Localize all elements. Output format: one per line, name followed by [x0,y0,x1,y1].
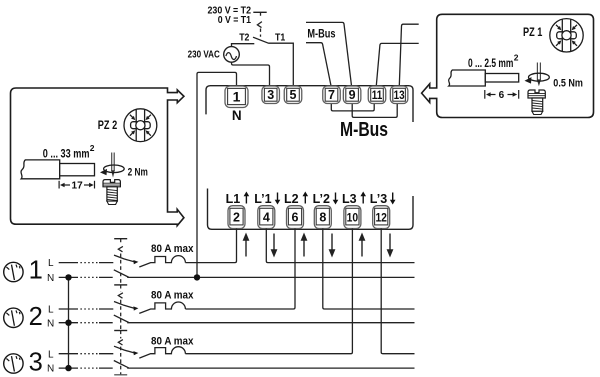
meter 1 breaker element [139,256,185,267]
junction dot N meter 2 [65,320,71,326]
svg-text:L’3: L’3 [370,192,387,206]
label L'3 down [370,192,396,206]
M-Bus link terminal 7 to 11 under strip [331,104,374,111]
svg-text:3: 3 [29,349,43,377]
svg-text:17: 17 [72,180,84,191]
meter 2 switch L blade [114,302,134,309]
switch link chevron meter 1 [118,246,123,251]
label L3 up [342,192,366,206]
wire T1 common to terminal 5 [268,43,293,86]
M-Bus wire upper to terminal 9 [306,22,352,85]
label L'2 down [313,192,339,206]
svg-text:N: N [232,108,242,123]
PZ1 torque rotation ellipse arrow [525,73,550,83]
meter 2 N wire left [59,322,113,324]
PZ2 pozidriv bit icon [124,109,157,142]
meter 1 switch L blade [114,255,134,262]
meter 1 N wire dotted [77,276,100,278]
meter body top terminal strip outline [206,86,413,122]
svg-text:5: 5 [290,88,297,102]
wire riser terminal 4 return L'1 [266,229,414,263]
tariff switch T2 fixed contact wire [232,44,255,47]
wire riser terminal 12 return L'3 [381,229,414,354]
switch link bar meter 2-3 [114,330,127,332]
svg-text:L2: L2 [284,192,299,206]
svg-text:0 ... 2.5 mm: 0 ... 2.5 mm [468,58,513,70]
terminal 7 [323,86,341,104]
tariff control link top bar [253,11,266,13]
meter 2 switch L contact arrow [133,306,138,310]
svg-text:12: 12 [375,210,387,224]
tariff control link arrow chevron [257,22,262,28]
meter 3 breaker element [139,347,185,358]
svg-text:L3: L3 [342,192,357,206]
meter 3 symbol circle [4,354,23,373]
switch link dashed line meter 3 [120,331,122,375]
M-Bus wire terminal 11 to right [376,43,418,85]
svg-text:PZ 2: PZ 2 [98,120,117,132]
meter 1 switch N blade [114,270,129,277]
M-Bus wire lower to terminal 7 [306,43,331,86]
switch link bottom bar meter 3 [114,374,127,376]
junction dot N meter 1 [65,274,71,280]
PZ2 cable stripped conductor [60,164,95,176]
svg-text:M-Bus: M-Bus [340,119,388,141]
PZ2 torque rotation ellipse arrow [100,165,124,175]
svg-text:80 A max: 80 A max [151,335,194,347]
svg-text:3: 3 [267,88,274,102]
meter 2 symbol circle [4,308,23,327]
PZ2 screwdriver shaft and tip [111,153,115,178]
PZ1 terminal screw [528,90,545,115]
PZ1 cable stripped conductor [485,74,518,83]
svg-text:6: 6 [499,90,505,101]
junction dot N riser [194,274,200,280]
M-Bus wire terminal 13 to right [399,24,418,85]
terminal 5 [284,86,302,104]
direction arrow up below terminal 2 [243,233,250,257]
svg-text:0 V = T1: 0 V = T1 [218,15,252,26]
meter 1 N wire left [59,276,113,278]
PZ1 pozidriv bit icon [550,19,583,52]
meter 2 breaker element [139,302,185,313]
meter 1 switch L contact arrow [133,260,138,264]
svg-text:9: 9 [349,88,356,102]
tariff control dashed link [260,12,262,37]
direction arrow up below terminal 10 [359,233,366,257]
svg-text:7: 7 [328,88,335,102]
PZ1 cable insulation with break [449,70,486,86]
AC source sine wave [226,53,237,60]
PZ1 detail box with pointer arrow [422,14,594,117]
junction dot N meter 3 [65,365,71,371]
meter 3 N wire dotted [77,367,100,369]
svg-text:13: 13 [394,88,405,102]
meter 3 L wire dotted [77,353,100,355]
label L'1 down [254,192,280,206]
meter 3 switch L contact arrow [133,351,138,355]
meter 1 N wire right to junction and loads [127,276,414,278]
PZ2 strip length dimension 17 [59,180,94,191]
meter 3 switch N blade [114,361,129,368]
label 0 ... 33 mm2 [43,143,95,161]
terminal 1 [225,86,248,108]
direction arrow down below terminal 4 [271,234,278,258]
svg-text:M-Bus: M-Bus [307,26,335,40]
svg-text:L1: L1 [226,192,241,206]
wire riser terminal 2 feed [185,229,236,263]
svg-text:PZ 1: PZ 1 [523,27,543,39]
PZ2 terminal screw [103,180,120,205]
meter 3 switch L blade [114,346,134,353]
meter 2 N wire dotted [77,322,100,324]
meter 1 L wire dotted [77,262,100,264]
svg-text:2 Nm: 2 Nm [128,167,148,179]
meter 1 symbol circle [4,262,23,281]
meter 2 L wire left [59,308,114,310]
tariff switch blade [253,37,268,43]
svg-text:4: 4 [263,210,270,224]
wire terminal 1 N up-left-down to junction [197,72,237,277]
terminal 6 [287,206,304,229]
switch link dashed line meter 2 [120,285,122,331]
svg-text:11: 11 [372,88,383,102]
svg-text:80 A max: 80 A max [151,290,194,302]
PZ1 strip length dimension 6 [485,90,519,101]
meter body bottom terminal strip outline [208,189,414,230]
svg-text:6: 6 [292,210,299,224]
svg-text:L’2: L’2 [313,192,330,206]
svg-text:T1: T1 [275,31,285,43]
terminal 10 [344,206,361,229]
terminal 12 [373,206,390,229]
svg-text:L: L [48,349,54,360]
direction arrow down below terminal 12 [387,234,394,258]
meter 2 L wire dotted [77,308,100,310]
svg-text:N: N [47,273,54,284]
meter 1 L wire left [59,262,114,264]
terminal 9 [343,86,361,104]
meter 3 N wire right to loads [127,367,414,369]
N bus vertical wire [68,277,70,368]
svg-text:2: 2 [233,210,240,224]
PZ2 detail box with pointer arrows [11,88,184,226]
svg-text:L: L [48,305,54,316]
PZ2 cable insulation with break [21,160,60,179]
PZ1 screwdriver shaft and tip [537,63,541,87]
svg-text:80 A max: 80 A max [151,243,194,255]
direction arrow down below terminal 8 [329,234,336,258]
wire riser terminal 8 return L'2 [323,229,415,310]
svg-text:L’1: L’1 [254,192,271,206]
meter 2 switch N blade [114,315,129,322]
terminal 3 [262,86,280,104]
terminal 11 [368,86,386,104]
direction arrow up below terminal 6 [301,233,308,257]
meter 3 N wire left [59,367,113,369]
svg-text:T2: T2 [239,31,249,43]
wire riser terminal 6 feed [185,229,295,310]
terminal 13 [390,86,408,104]
svg-text:N: N [47,364,54,375]
terminal 8 [314,206,331,229]
svg-text:2: 2 [514,52,519,62]
svg-text:0 ... 33 mm: 0 ... 33 mm [43,148,90,160]
terminal 2 [228,206,245,229]
svg-text:L: L [48,258,54,269]
switch link dashed line meter 1 [120,239,122,285]
meter 2 N wire right to loads [127,322,414,324]
wire AC source bottom to terminal 3 [232,62,270,86]
label L2 up [284,192,308,206]
M-Bus link terminal 9 to 13 under strip [352,104,397,118]
svg-text:10: 10 [347,210,359,224]
switch link chevron meter 2 [118,293,123,298]
switch link top bar meter 1 [114,238,127,240]
switch link chevron meter 3 [118,340,123,345]
label 0 ... 2.5 mm2 [468,52,519,70]
svg-text:N: N [47,318,54,329]
terminal 4 [258,206,275,229]
svg-text:1: 1 [29,256,43,284]
svg-text:2: 2 [29,303,43,331]
meter 3 L wire left [59,353,114,355]
svg-text:1: 1 [233,89,241,105]
svg-text:0.5 Nm: 0.5 Nm [553,78,583,90]
switch link bar meter 1-2 [114,284,127,286]
wire riser terminal 10 feed [185,229,352,354]
svg-text:2: 2 [90,143,95,153]
AC source circle [224,47,240,63]
label L1 up [226,192,250,206]
svg-text:8: 8 [319,210,326,224]
svg-text:230 VAC: 230 VAC [188,49,220,60]
